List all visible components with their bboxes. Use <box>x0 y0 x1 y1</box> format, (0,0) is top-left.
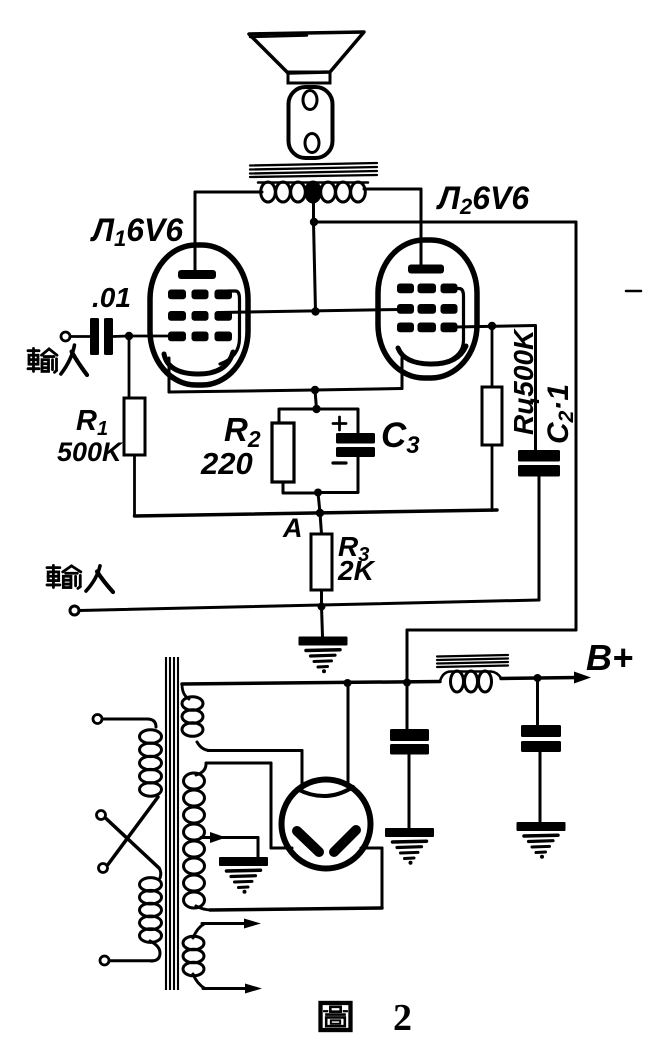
svg-text:A: A <box>282 513 303 543</box>
svg-text:.01: .01 <box>92 282 131 313</box>
svg-text:500K: 500K <box>57 437 124 467</box>
svg-text:Rц500K: Rц500K <box>508 328 539 435</box>
svg-text:Л16V6: Л16V6 <box>90 212 183 251</box>
svg-text:B+: B+ <box>586 637 633 678</box>
svg-text:2K: 2K <box>337 555 376 586</box>
svg-text:220: 220 <box>200 446 253 481</box>
svg-text:Л26V6: Л26V6 <box>436 180 529 219</box>
svg-text:2: 2 <box>393 997 412 1039</box>
